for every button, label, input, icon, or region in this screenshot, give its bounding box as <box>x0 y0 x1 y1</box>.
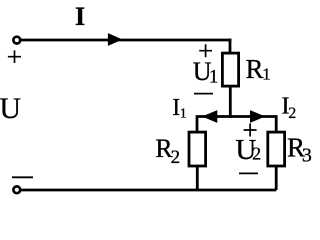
svg-text:U: U <box>0 92 21 125</box>
svg-text:2: 2 <box>252 144 261 164</box>
svg-text:2: 2 <box>288 105 296 122</box>
svg-text:2: 2 <box>171 147 181 168</box>
svg-text:R: R <box>246 54 264 84</box>
svg-text:1: 1 <box>209 67 219 88</box>
svg-text:1: 1 <box>262 65 271 84</box>
svg-text:I: I <box>75 2 85 31</box>
svg-text:3: 3 <box>302 145 312 167</box>
svg-text:1: 1 <box>180 107 187 122</box>
